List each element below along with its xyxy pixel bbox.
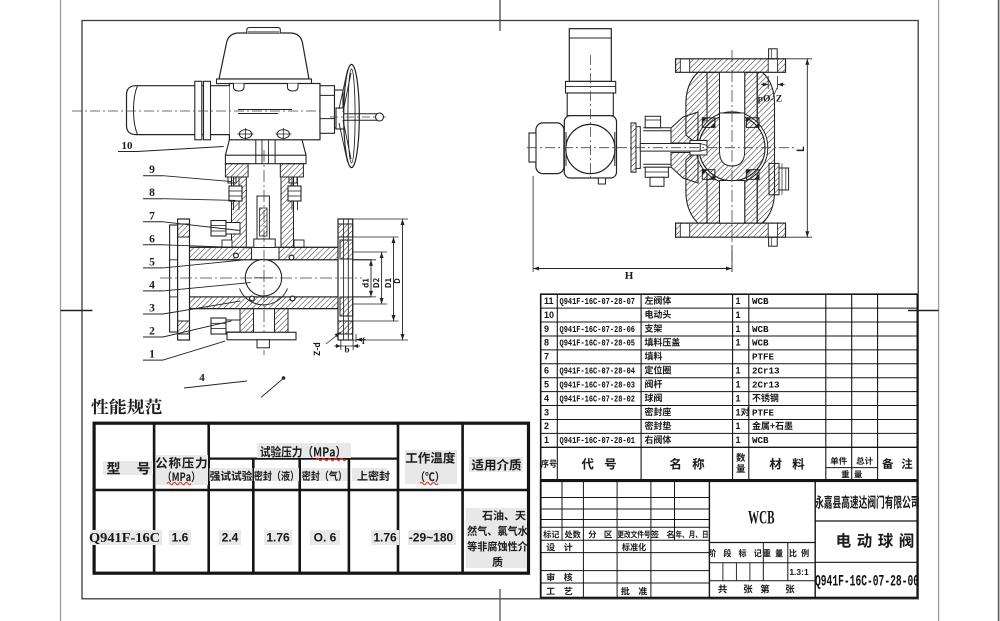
rv motor end bell [536,123,564,174]
dim H [532,176,534,272]
svg-text:7: 7 [149,210,155,222]
title block main verticals [708,481,710,597]
spec subheader 密封气 [301,468,347,481]
rv top bolt stud [769,49,778,59]
svg-text:6: 6 [544,366,549,376]
rv bracket plates [631,123,636,172]
lower drain stub [257,340,269,348]
svg-text:2Cr13: 2Cr13 [752,379,780,390]
rv stem yoke leg upper hatched [671,112,698,143]
spec data O.6 [310,530,340,545]
centering mark bottom [499,589,501,621]
mount bolt ellipse right [277,130,289,139]
spec subheader 上密封 [352,468,387,481]
title 工艺 row [547,587,573,595]
svg-text:9: 9 [544,324,549,334]
section bolt circles [234,253,239,258]
svg-text:1: 1 [736,366,741,376]
svg-text:PTFE: PTFE [752,407,775,418]
dim Z-d [313,343,320,356]
dim p phi Z [767,76,769,89]
svg-text:10: 10 [122,140,134,152]
svg-text:1.76: 1.76 [373,531,397,545]
svg-text:1: 1 [736,310,741,320]
svg-text:1.76: 1.76 [266,531,290,545]
svg-text:2.4: 2.4 [222,531,239,545]
worm housing step blocks [320,86,335,134]
body bore lines [178,259,371,261]
left flange plate [178,219,190,340]
svg-text:1: 1 [736,324,741,334]
yoke bracket sides [225,140,229,155]
svg-text:Q941F-16C-07-28-06: Q941F-16C-07-28-06 [560,324,636,335]
gland bolt right [289,177,297,183]
body upper wall hatched [190,247,339,259]
spec header 适用介质 [469,457,523,472]
svg-text:Q941F-16C-07-28-01: Q941F-16C-07-28-01 [560,435,636,446]
svg-text:WCB: WCB [752,435,769,446]
svg-text:4: 4 [199,372,205,384]
svg-text:b: b [344,345,349,355]
handwheel shaft [344,113,377,115]
spec data 2.4 [219,530,241,545]
title product name 电动球阀 [837,533,913,548]
handwheel hub [336,108,344,129]
shaft end ball [376,113,384,121]
svg-text:PTFE: PTFE [752,352,775,363]
ball [245,260,281,296]
body vent lines [238,109,292,111]
svg-text:1: 1 [149,349,155,361]
centering mark top [499,0,501,31]
bonnet column left [232,177,247,247]
title stage mark cells [722,563,724,581]
rv body left bulge hatched [686,72,707,223]
parts header 重量 subdivider [826,467,878,469]
spec header 型号 [103,461,153,475]
rv valve centerline [731,50,733,272]
title block left grid horizontals [541,497,710,499]
svg-text:Q941F-16C-07-28-07: Q941F-16C-07-28-07 [560,296,636,307]
svg-text:9: 9 [149,164,155,176]
spec data 型号值 [90,530,162,545]
dim L [786,58,813,60]
rv horizontal centerline [527,147,795,149]
svg-text:1: 1 [736,338,741,348]
svg-text:10: 10 [544,310,554,320]
rv lower cylinder [567,93,613,116]
svg-text:8: 8 [149,187,155,199]
svg-text:pØ- Z: pØ- Z [758,95,783,105]
bonnet flange bolts [222,240,232,248]
body top notch left [234,84,245,92]
svg-text:6: 6 [149,233,155,245]
svg-text:Q941F-16C-07-28-05: Q941F-16C-07-28-05 [560,338,636,349]
parts table verticals [556,294,558,480]
rv bore below ball [720,181,745,224]
ball cavity arc [240,289,288,305]
dim D1 [393,237,395,321]
svg-text:1: 1 [736,407,741,417]
svg-text:2: 2 [544,421,549,431]
left flange face plate [170,225,178,332]
gland bolt left [228,177,236,183]
yoke flange plate [225,155,306,164]
spec subheader 强试试验 [210,468,253,481]
rv stem boss white [690,141,707,156]
lower gland plate [227,332,296,340]
centering mark right [908,310,939,312]
actuator cap base flange [217,79,312,84]
title company name [815,495,918,509]
svg-text:Q941F-16C-07-28-04: Q941F-16C-07-28-04 [560,366,636,377]
rv stem shaft [640,144,700,152]
svg-text:WCB: WCB [752,296,769,307]
svg-text:1.3:1: 1.3:1 [789,567,809,577]
centering mark left [61,310,93,312]
dim f [355,334,357,342]
title 标记 row [543,530,559,538]
body top notch right [288,84,299,92]
packing injector bolt [211,221,226,237]
motor collar band 1 [195,81,202,140]
title 共张第张 row [718,584,727,593]
stud bolt right with nut [291,177,293,210]
svg-text:Q941F-16C-07-28-03: Q941F-16C-07-28-03 [560,379,636,390]
drawing sheet outer trim line right [938,0,940,621]
rv bottom bolt stud [769,237,778,246]
svg-text:5: 5 [544,379,549,389]
title 阶段标记 row [709,542,815,544]
handwheel rim [344,64,360,167]
svg-text:WCB: WCB [752,324,769,335]
svg-text:4: 4 [544,393,549,403]
bonnet neck white channel [252,248,280,259]
spec header 工作温度 [405,450,457,484]
rv motor collar [566,81,616,93]
left flange bolt holes [178,224,190,237]
spec header 公称压力 MPa [156,455,208,485]
motor axis centerline [72,110,332,112]
mount bolt ellipse left [239,130,251,139]
svg-text:H: H [625,270,634,282]
svg-text:8: 8 [544,338,549,348]
rv ball bore slot [720,113,745,166]
stem column lines [255,140,257,164]
rv vertical centerline motor [589,55,591,181]
svg-text:4: 4 [149,279,155,291]
body outer lines [190,246,339,248]
svg-text:Q941F-16C: Q941F-16C [89,530,160,545]
stud bolt left with nut [233,177,235,210]
dim D2 [381,252,383,304]
dim D [402,219,404,340]
rv pipe bore [720,72,745,223]
spec data 1.6 [169,530,191,545]
rv ball clearance ring [696,112,768,184]
rv bottom nut [643,163,671,165]
spec subheader 密封液 [254,468,299,481]
bonnet column right [281,177,294,247]
rv bottom flange hatched [676,223,786,237]
actuator top cap dome [219,33,309,79]
svg-text:1: 1 [544,435,549,445]
title block outer frame [541,481,918,597]
spec table outer border [94,423,528,573]
svg-text:1.6: 1.6 [172,531,189,545]
svg-text:3: 3 [149,303,155,315]
drawing sheet outer trim line left [60,0,62,621]
motor cylinder [127,86,230,135]
svg-text:3: 3 [544,407,549,417]
svg-text:WCB: WCB [752,338,769,349]
svg-text:11: 11 [544,296,554,306]
inner border frame [82,21,918,599]
spec header 试验压力 MPa [257,443,351,458]
svg-text:1: 1 [736,421,741,431]
title 设计 row [547,543,573,551]
handwheel spokes [339,70,348,109]
svg-text:Q941F-16C-07-28-02: Q941F-16C-07-28-02 [560,393,636,404]
rv side boss hatched [769,163,779,194]
actuator main body [229,84,320,140]
rv body right bulge hatched [757,72,774,223]
rv worm wheel circle [566,124,615,173]
rv ball hatched [699,115,765,181]
vertical centerline [263,150,265,355]
spec table title 性能规范 [91,398,161,414]
svg-text:WCB: WCB [748,508,775,529]
rv bottom stub [598,178,605,184]
dim b [340,340,342,350]
spec data 适用介质值 [466,508,526,568]
svg-text:2Cr13: 2Cr13 [752,366,780,377]
svg-text:2: 2 [149,326,155,338]
pipe axis centerline [160,277,362,279]
svg-text:5: 5 [149,256,155,268]
svg-text:1: 1 [736,296,741,306]
body lower wall hatched [190,297,339,309]
spec table vertical lines [153,423,156,573]
gland hatch block left [225,164,248,177]
svg-text:1: 1 [736,393,741,403]
stem tang [254,239,275,248]
rv gear housing [564,116,616,178]
svg-text:-29~180: -29~180 [409,531,454,545]
right flange plate [338,219,353,340]
lower neck column left [240,309,254,333]
title block left grid verticals [561,481,563,540]
stray leader dot [261,379,283,398]
dim d1 [370,260,372,297]
right flange bolt holes [338,224,353,237]
motor collar band 2 [204,81,211,140]
spec data 1.76a [264,530,292,545]
valve stem [257,196,269,244]
rv motor cylinder [569,29,611,82]
rv end stub [529,133,536,162]
svg-text:Q941F-16C-07-28-00: Q941F-16C-07-28-00 [815,573,919,591]
parts header row texts [541,459,557,468]
actuator cap top knob [247,28,280,34]
lower neck column right [275,309,289,333]
parts table frame [541,294,918,480]
scan edge line far right [998,0,1000,621]
rv pipe wall right hatched [745,72,758,223]
rv pipe wall left hatched [707,72,720,223]
motor end cap line [134,86,138,135]
lower gland hex bolt [211,318,226,334]
svg-text:O. 6: O. 6 [314,531,337,545]
rv stem yoke leg lower hatched [671,153,698,184]
svg-text:1: 1 [736,435,741,445]
spec data 1.76b [371,530,399,545]
svg-text:7: 7 [544,352,549,362]
spec table horizontal lines [94,489,528,492]
gland hatch block right [280,164,303,177]
parts table row lines [541,307,918,309]
rv top nut [645,116,660,128]
rv seat rings [702,118,715,128]
rv top flange hatched [676,59,786,73]
rv side boss bolt [779,168,789,190]
title block right horizontals [815,520,917,522]
title 审核 row [547,573,573,582]
spec data 温度值 [408,530,456,545]
svg-text:1: 1 [736,379,741,389]
dimension extension lines [353,259,376,261]
